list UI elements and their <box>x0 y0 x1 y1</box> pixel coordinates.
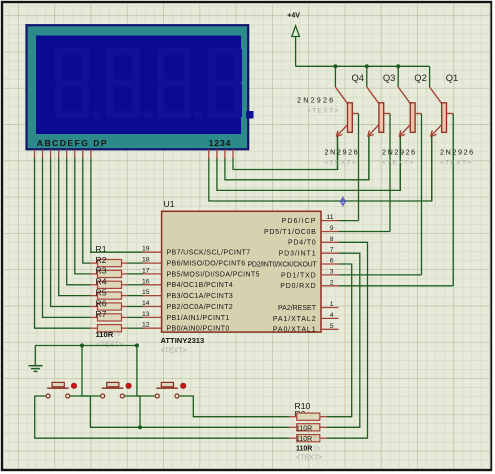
svg-text:PB3/OC1A/PCINT3: PB3/OC1A/PCINT3 <box>167 293 234 300</box>
R10 element 1 right lead <box>320 416 327 418</box>
transistor Q1 2N2926 <box>430 87 454 137</box>
svg-text:<TEXT>: <TEXT> <box>325 160 358 167</box>
resistor R1 body <box>98 260 122 267</box>
display segment pin 7 stub <box>82 150 84 159</box>
svg-text:17: 17 <box>142 267 150 274</box>
wire pin8 to R10c <box>327 242 368 438</box>
wire Q1 emitter down <box>431 137 433 201</box>
wire display pin 8 to resistor row <box>89 159 92 253</box>
wire +4V to rail <box>296 37 430 67</box>
display segment pin 2 stub <box>42 150 44 159</box>
wire display pin 1 to resistor row <box>35 159 91 329</box>
resistor R6 left lead <box>90 316 98 318</box>
MCU pin 11 stub <box>321 220 339 222</box>
MCU pin 5 stub <box>321 328 339 330</box>
resistor R7 right lead <box>122 327 128 329</box>
wire Q2 base down <box>421 114 423 275</box>
svg-text:<TEXT>: <TEXT> <box>440 160 473 167</box>
MCU pin 16 stub <box>143 284 162 286</box>
wire resistor R4 to MCU <box>128 295 144 297</box>
resistor R6 right lead <box>122 316 128 318</box>
svg-text:Q1: Q1 <box>446 72 459 83</box>
resistor R10 element 1 body <box>297 413 320 420</box>
svg-text:11: 11 <box>326 214 333 221</box>
svg-text:9: 9 <box>330 225 334 232</box>
wire Q3 emitter down <box>368 137 370 180</box>
svg-text:PD3/INT1: PD3/INT1 <box>279 251 317 258</box>
resistor R2 right lead <box>122 273 128 275</box>
svg-text:1: 1 <box>330 301 334 308</box>
svg-text:PA0/XTAL1: PA0/XTAL1 <box>273 327 317 334</box>
svg-text:2: 2 <box>330 279 334 286</box>
MCU pin 4 stub <box>321 317 339 319</box>
transistor Q3 2N2926 <box>367 87 390 137</box>
wire pin2 to Q1 base <box>339 285 454 287</box>
transistor Q2 2N2926 <box>398 87 421 137</box>
svg-text:2N2926: 2N2926 <box>325 148 360 157</box>
svg-text:PD0/RXD: PD0/RXD <box>280 283 316 290</box>
svg-text:R2: R2 <box>96 255 107 265</box>
svg-text:R7: R7 <box>96 309 107 319</box>
ground symbol <box>29 346 43 372</box>
svg-text:2N2926: 2N2926 <box>382 148 417 157</box>
svg-text:5: 5 <box>330 323 334 330</box>
svg-text:ATTINY2313: ATTINY2313 <box>161 336 205 345</box>
resistor R5 body <box>98 303 122 310</box>
7-segment display body <box>27 25 249 149</box>
svg-text:14: 14 <box>142 300 150 307</box>
wire row pin19 direct <box>90 251 143 253</box>
transistor Q4 2N2926 <box>335 87 358 137</box>
svg-text:PD2/INT0/XCK/CKOUT: PD2/INT0/XCK/CKOUT <box>247 261 317 268</box>
svg-text:R6: R6 <box>96 298 107 308</box>
wire pin9 to Q3 base <box>339 231 391 233</box>
svg-text:<TEXT>: <TEXT> <box>307 107 340 114</box>
svg-text:R5: R5 <box>96 287 107 297</box>
wire pin11 to Q4 base <box>339 220 359 222</box>
wire rail to Q3 collector <box>366 66 368 87</box>
wire resistor R7 to MCU <box>128 327 144 329</box>
wire Q4 emitter down <box>337 137 339 170</box>
display segment pin 6 stub <box>74 150 76 159</box>
svg-text:PD5/T1/OC0B: PD5/T1/OC0B <box>264 229 316 236</box>
svg-text:PB2/OC0A/PCINT2: PB2/OC0A/PCINT2 <box>167 304 234 311</box>
resistor R7 left lead <box>90 327 98 329</box>
junction rail Q4 <box>333 64 337 68</box>
svg-text:R3: R3 <box>96 266 107 276</box>
resistor R5 right lead <box>122 306 128 308</box>
wire rail to button2 left <box>82 346 101 397</box>
display digits <box>55 48 254 119</box>
svg-text:PB5/MOSI/DI/SDA/PCINT5: PB5/MOSI/DI/SDA/PCINT5 <box>167 271 260 278</box>
resistor R2 left lead <box>90 273 98 275</box>
resistor R10 element 3 body <box>297 435 320 442</box>
wire display pin 5 to resistor row <box>67 159 90 285</box>
wire Q3 base down <box>389 114 391 232</box>
svg-text:T>: T> <box>313 445 321 452</box>
wire rail to Q4 collector <box>334 66 336 87</box>
MCU pin 7 stub <box>321 252 339 254</box>
display common pin 4 stub <box>232 150 234 159</box>
push button 2 <box>101 382 132 398</box>
R10 element 3 right lead <box>320 437 327 439</box>
MCU pin 15 stub <box>143 295 162 297</box>
svg-text:R4: R4 <box>96 277 107 287</box>
display segment pin 5 stub <box>66 150 68 159</box>
MCU pin 2 stub <box>321 285 339 287</box>
MCU pin 8 stub <box>321 241 339 243</box>
MCU pin 9 stub <box>321 231 339 233</box>
svg-text:19: 19 <box>142 246 150 253</box>
svg-text:2N2926: 2N2926 <box>297 95 335 104</box>
resistor R3 left lead <box>90 284 98 286</box>
svg-text:4: 4 <box>330 312 334 319</box>
svg-text:+4V: +4V <box>287 13 300 20</box>
svg-text:16: 16 <box>142 278 150 285</box>
ground rail wire <box>35 345 137 347</box>
resistor R1 left lead <box>90 262 98 264</box>
origin marker <box>340 196 347 206</box>
MCU pin 14 stub <box>143 306 162 308</box>
MCU pin 13 stub <box>143 316 162 318</box>
svg-text:13: 13 <box>142 311 150 318</box>
wire rail to Q1 collector <box>429 66 431 87</box>
svg-text:3: 3 <box>330 268 334 275</box>
wire Q4 base down <box>358 114 360 221</box>
wire resistor R5 to MCU <box>128 306 144 308</box>
wire resistor R2 to MCU <box>128 273 144 275</box>
MCU U1 ATTINY2313 body <box>162 211 321 332</box>
svg-text:110R: 110R <box>96 330 114 339</box>
R10 element 2 right lead <box>320 426 327 428</box>
wire display common 1 to transistor Q1 emitter <box>209 132 432 201</box>
MCU pin 1 stub <box>321 307 339 309</box>
svg-text:PB4/OC1B/PCINT4: PB4/OC1B/PCINT4 <box>167 282 234 289</box>
svg-text:Q3: Q3 <box>383 72 396 83</box>
svg-text:110R: 110R <box>296 425 312 432</box>
MCU pin 3 stub <box>321 274 339 276</box>
wire Q1 base down <box>452 114 454 286</box>
wire button1 right to R10b <box>70 396 289 427</box>
svg-text:T>: T> <box>313 436 321 443</box>
display segment pin 1 stub <box>34 150 36 159</box>
resistor R7 body <box>98 325 122 332</box>
svg-text:R1: R1 <box>96 244 107 254</box>
svg-text:8: 8 <box>330 236 334 243</box>
wire display pin 2 to resistor row <box>43 159 91 318</box>
resistor R4 left lead <box>90 295 98 297</box>
wire button3 right to R10a <box>179 396 289 417</box>
svg-text:<TEXT>: <TEXT> <box>161 348 187 355</box>
svg-text:PB1/AIN1/PCINT1: PB1/AIN1/PCINT1 <box>167 315 230 322</box>
svg-text:PA1/XTAL2: PA1/XTAL2 <box>273 316 317 323</box>
junction rail b3 corner <box>135 343 139 347</box>
svg-text:U1: U1 <box>164 199 175 209</box>
wire pin7 to R10b <box>327 253 360 427</box>
svg-text:110R: 110R <box>296 436 312 443</box>
display common pin 2 stub <box>216 150 218 159</box>
wire display common 4 to transistor Q4 emitter <box>233 132 338 170</box>
wire display common 2 to transistor Q2 emitter <box>217 132 400 191</box>
MCU pin 12 stub <box>143 327 162 329</box>
svg-text:18: 18 <box>142 257 150 264</box>
svg-text:PA2/RESET: PA2/RESET <box>278 305 317 312</box>
display segment pin 3 stub <box>50 150 52 159</box>
wire resistor R3 to MCU <box>128 284 144 286</box>
R10 element 3 left lead <box>289 437 297 439</box>
junction rail Q2 <box>396 64 400 68</box>
svg-text:PB7/USCK/SCL/PCINT7: PB7/USCK/SCL/PCINT7 <box>167 250 251 257</box>
resistor R4 right lead <box>122 295 128 297</box>
wire button1 left to R10c <box>35 396 289 438</box>
resistor R3 right lead <box>122 284 128 286</box>
wire pin3 to Q2 base <box>339 274 422 276</box>
MCU pin 18 stub <box>143 262 162 264</box>
svg-text:6: 6 <box>330 258 334 265</box>
power +4V symbol <box>287 13 300 37</box>
svg-text:Q2: Q2 <box>414 72 427 83</box>
wire button2 right join <box>125 396 141 427</box>
wire display pin 6 to resistor row <box>75 159 90 274</box>
svg-text:<TEXT>: <TEXT> <box>296 454 322 461</box>
junction rail b2 <box>80 343 84 347</box>
svg-text:2N2926: 2N2926 <box>440 148 475 157</box>
svg-text:PD1/TXD: PD1/TXD <box>281 272 317 279</box>
wire Q2 emitter down <box>399 137 401 191</box>
MCU pin 17 stub <box>143 273 162 275</box>
R10 element 2 left lead <box>289 426 297 428</box>
wire pin6 to R10a <box>327 264 352 417</box>
svg-text:12: 12 <box>142 322 150 329</box>
display segment pin 4 stub <box>58 150 60 159</box>
svg-text:T>: T> <box>113 332 121 339</box>
svg-text:1234: 1234 <box>209 138 232 148</box>
resistor R5 left lead <box>90 306 98 308</box>
resistor R10 element 2 body <box>297 424 320 431</box>
resistor R4 body <box>98 292 122 299</box>
svg-text:PB0/AIN0/PCINT0: PB0/AIN0/PCINT0 <box>167 326 230 333</box>
MCU pin 6 stub <box>321 263 339 265</box>
wire rail to button3 left <box>137 346 155 397</box>
push button 1 <box>46 382 77 398</box>
resistor R6 body <box>98 314 122 321</box>
MCU pin 19 stub <box>143 251 162 253</box>
junction rail Q3 <box>365 64 369 68</box>
svg-text:PB6/MISO/DO/PCINT6: PB6/MISO/DO/PCINT6 <box>167 261 246 268</box>
svg-text:7: 7 <box>330 247 334 254</box>
wire display common 3 to transistor Q3 emitter <box>225 132 369 180</box>
svg-text:<TEXT>: <TEXT> <box>382 160 415 167</box>
resistor R2 body <box>98 270 122 277</box>
svg-text:ABCDEFG DP: ABCDEFG DP <box>37 138 108 148</box>
svg-text:PD4/T0: PD4/T0 <box>288 240 317 247</box>
svg-text:15: 15 <box>142 289 150 296</box>
svg-text:Q4: Q4 <box>352 72 365 83</box>
wire resistor R1 to MCU <box>128 262 144 264</box>
R10 element 1 left lead <box>289 416 297 418</box>
display segment pin 8 stub <box>90 150 92 159</box>
push button 3 <box>155 382 186 398</box>
wire display pin 4 to resistor row <box>59 159 90 296</box>
resistor R1 right lead <box>122 262 128 264</box>
junction b2 to row <box>138 425 142 429</box>
wire display pin 3 to resistor row <box>51 159 90 307</box>
svg-text:110R: 110R <box>296 445 312 452</box>
wire resistor R6 to MCU <box>128 316 144 318</box>
display common pin 3 stub <box>224 150 226 159</box>
resistor R3 body <box>98 281 122 288</box>
display common pin 1 stub <box>208 150 210 159</box>
svg-text:PD6/ICP: PD6/ICP <box>282 218 317 225</box>
wire display pin 7 to resistor row <box>83 159 90 264</box>
wire rail to Q2 collector <box>397 66 399 87</box>
